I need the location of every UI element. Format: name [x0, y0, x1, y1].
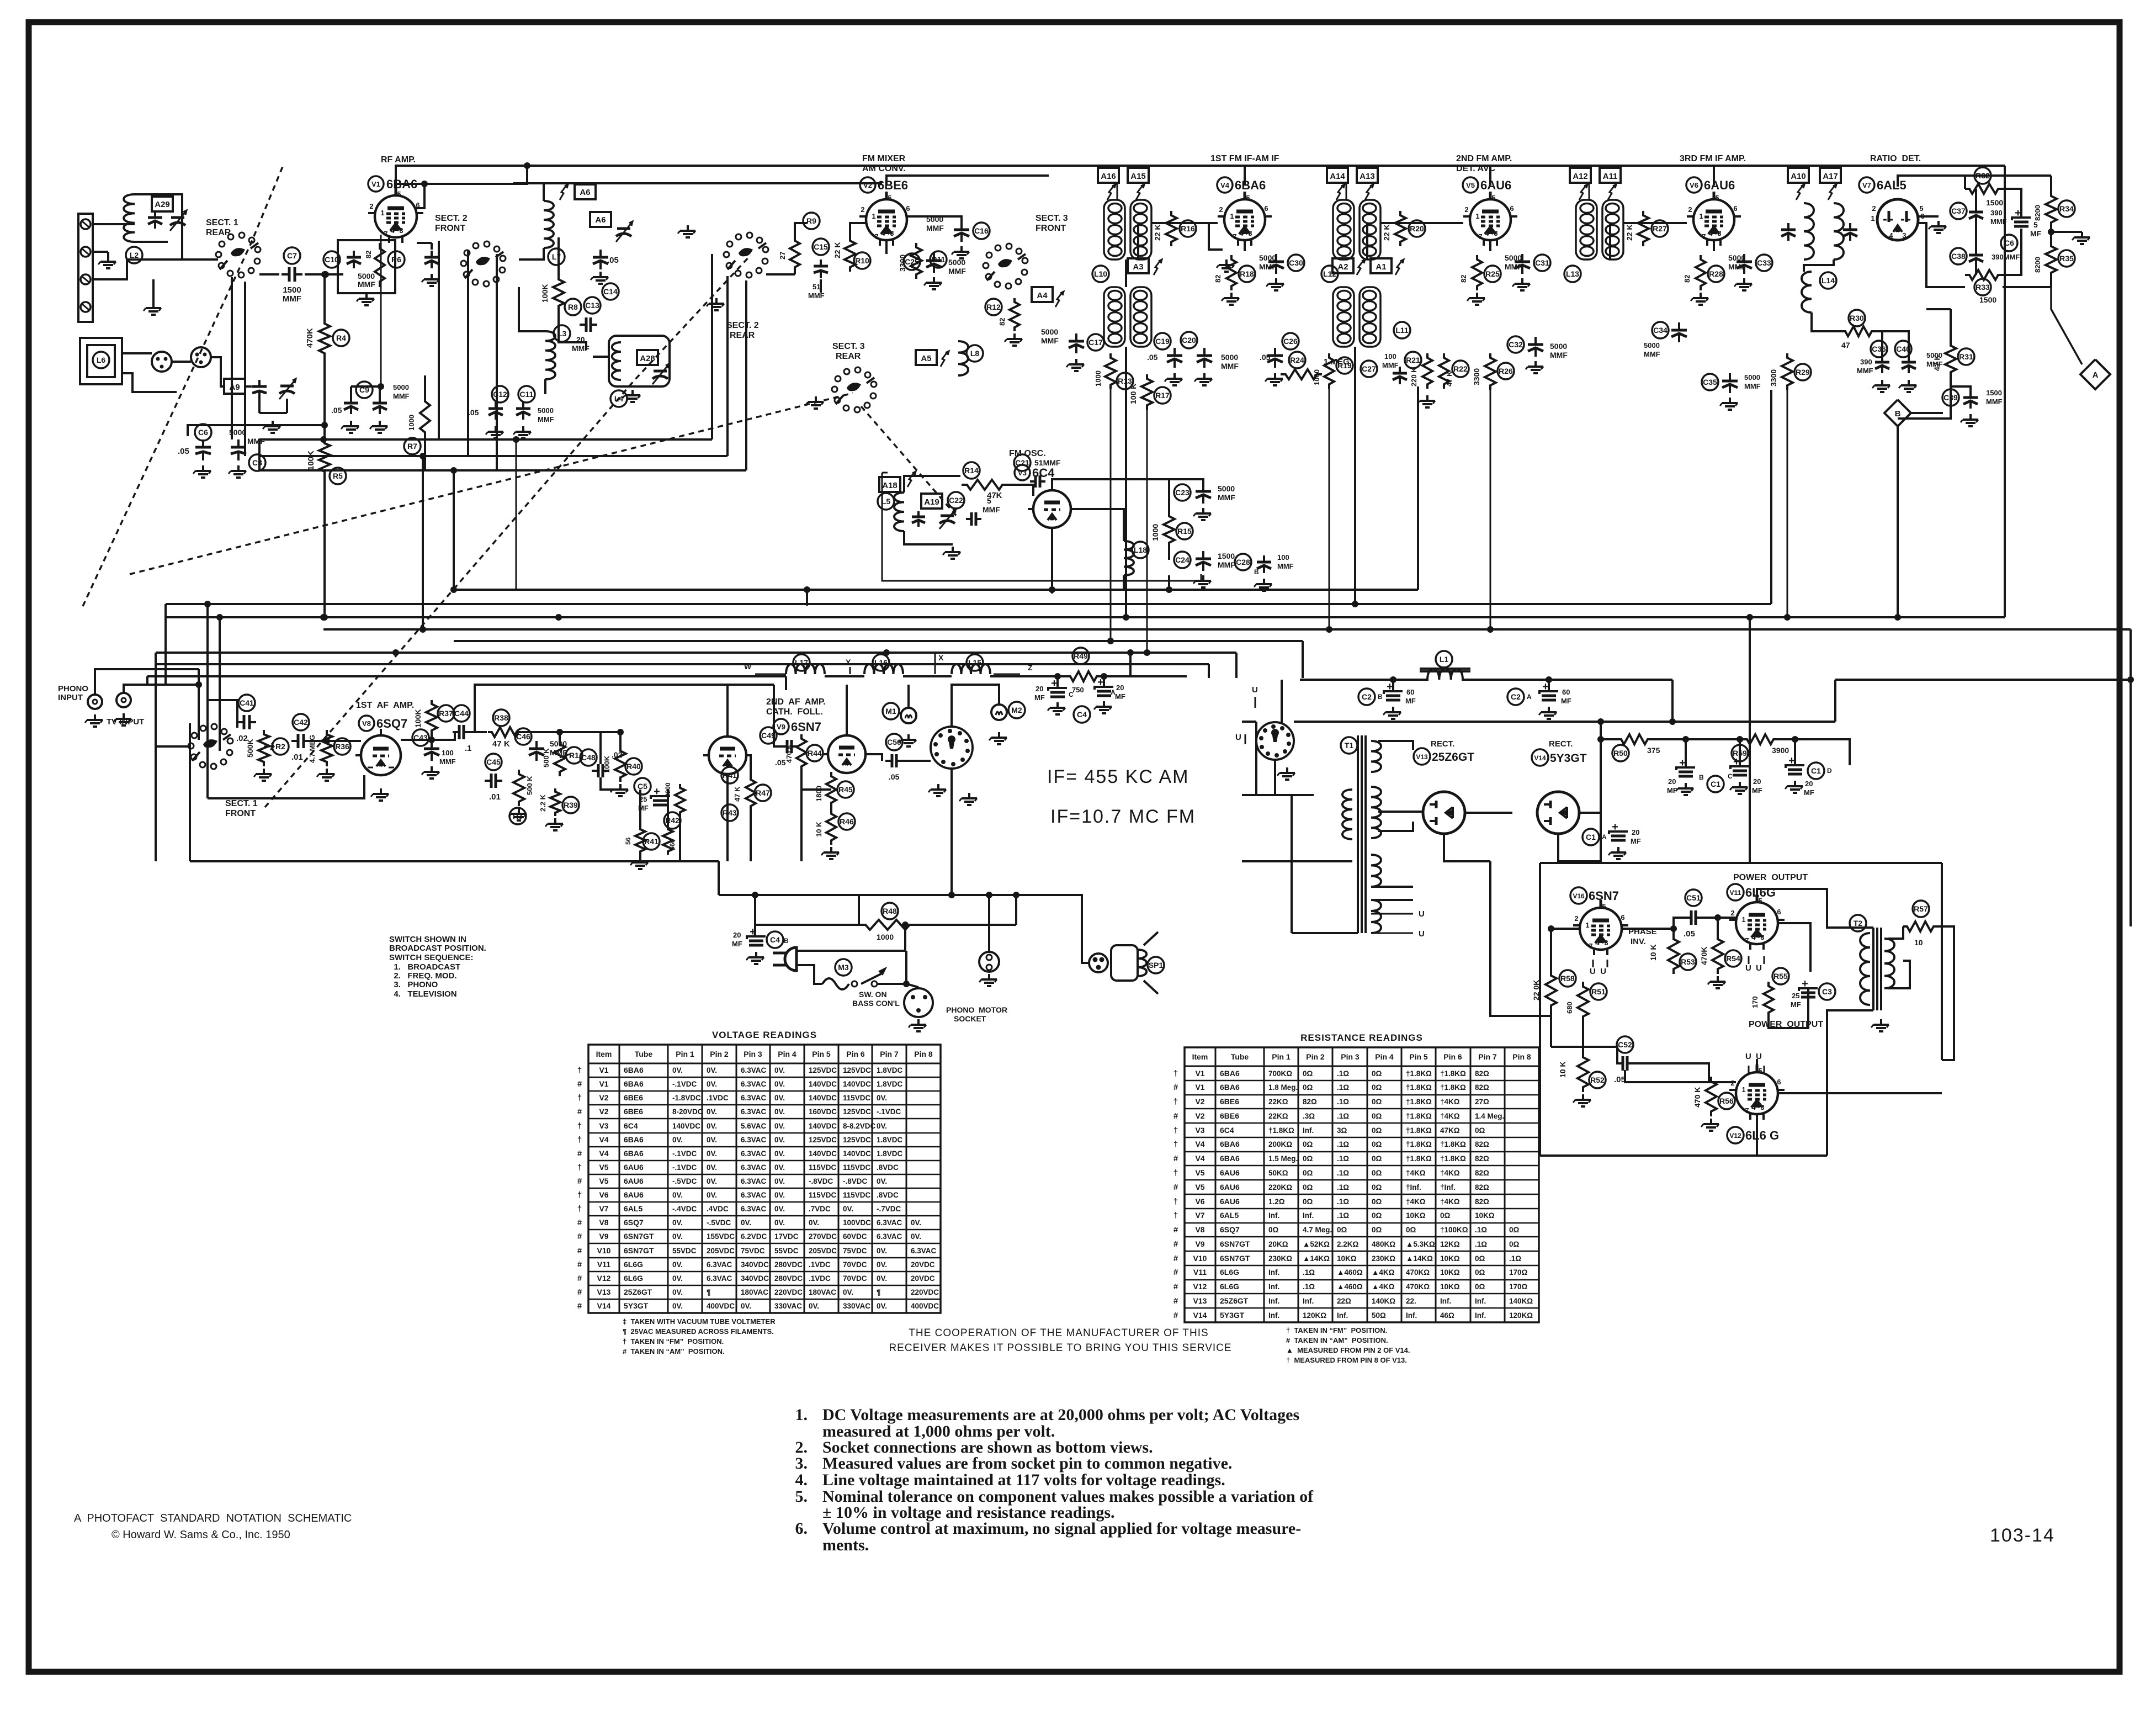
capacitor C26 .05 [1282, 333, 1299, 349]
svg-text:R53: R53 [1681, 957, 1695, 966]
svg-text:22 K: 22 K [833, 242, 842, 258]
bus left vertical drops [155, 653, 157, 746]
svg-text:10 K: 10 K [815, 822, 823, 837]
svg-text:375: 375 [1647, 746, 1660, 755]
svg-text:0Ω: 0Ω [1303, 1198, 1313, 1206]
svg-text:.05: .05 [607, 256, 619, 265]
svg-text:.05: .05 [1684, 929, 1695, 939]
svg-text:3: 3 [1494, 229, 1497, 237]
svg-text:0V.: 0V. [809, 1302, 819, 1310]
svg-text:155VDC: 155VDC [707, 1232, 735, 1241]
svg-text:22.: 22. [1406, 1297, 1416, 1305]
svg-text:V5: V5 [599, 1177, 608, 1185]
svg-text:INPUT: INPUT [58, 693, 83, 702]
svg-text:C38: C38 [1951, 252, 1966, 261]
svg-text:C23: C23 [1175, 488, 1189, 497]
svg-text:.1Ω: .1Ω [1337, 1183, 1349, 1191]
svg-text:2: 2 [369, 202, 373, 210]
svg-text:R44: R44 [808, 749, 822, 758]
svg-text:0V.: 0V. [877, 1260, 887, 1269]
capacitor C48 .02 [580, 749, 597, 766]
svg-text:▲ MEASURED FROM PIN 2 OF V14.: ▲ MEASURED FROM PIN 2 OF V14. [1286, 1346, 1410, 1354]
svg-text:B: B [1378, 693, 1383, 701]
svg-text:R28: R28 [1709, 269, 1723, 278]
svg-text:5: 5 [2033, 220, 2038, 229]
resistor R24 1 MEG [1289, 352, 1305, 368]
svg-text:20KΩ: 20KΩ [1268, 1240, 1288, 1248]
svg-text:MF: MF [1791, 1000, 1801, 1009]
svg-text:†: † [577, 1204, 582, 1214]
svg-text:RECT.: RECT. [1431, 739, 1454, 749]
svg-text:20: 20 [1805, 780, 1813, 788]
labels R41b R43 [721, 767, 738, 783]
coil label L10 [1092, 266, 1109, 282]
capacitor C13 20MMF [584, 297, 601, 314]
svg-text:125VDC: 125VDC [843, 1136, 871, 1144]
svg-text:115VDC: 115VDC [843, 1191, 871, 1199]
svg-text:Inf.: Inf. [1303, 1126, 1314, 1135]
capacitors C12 C11 [492, 386, 508, 402]
svg-text:†: † [1173, 1069, 1178, 1078]
svg-text:C: C [1728, 772, 1733, 780]
svg-text:0V.: 0V. [672, 1219, 683, 1227]
svg-text:0V.: 0V. [774, 1122, 785, 1130]
svg-text:6BA6: 6BA6 [624, 1066, 644, 1074]
svg-text:7: 7 [1702, 232, 1706, 241]
resistor R52 10K [1578, 1052, 1589, 1092]
svg-text:MMF: MMF [1382, 361, 1399, 369]
svg-text:100K: 100K [413, 709, 422, 728]
svg-text:0V.: 0V. [707, 1122, 717, 1130]
psu second rail [1294, 721, 1835, 723]
svg-text:MMF: MMF [358, 280, 375, 289]
svg-text:R51: R51 [1591, 987, 1606, 996]
power top rail [1300, 679, 1429, 681]
T1 heater taps U arrows [1371, 913, 1413, 915]
svg-text:1000: 1000 [1313, 369, 1321, 385]
svg-text:V14: V14 [597, 1301, 611, 1310]
wire C42 to V8 grid [309, 740, 361, 742]
svg-text:7: 7 [1745, 936, 1749, 945]
svg-text:5: 5 [1246, 194, 1250, 202]
svg-text:.7VDC: .7VDC [809, 1205, 831, 1213]
svg-text:A18: A18 [882, 481, 898, 490]
svg-text:0V.: 0V. [877, 1094, 887, 1102]
svg-text:82Ω: 82Ω [1475, 1083, 1489, 1092]
svg-text:C: C [1069, 691, 1074, 698]
psu wiring [1392, 679, 1394, 681]
tube designation V7 6AL5 [1859, 177, 1874, 193]
svg-text:C19: C19 [1155, 337, 1170, 346]
svg-text:B: B [784, 937, 789, 945]
svg-text:†: † [1173, 1126, 1178, 1135]
svg-text:0Ω: 0Ω [1372, 1226, 1382, 1234]
ground under volume [263, 769, 265, 774]
svg-text:C34: C34 [1653, 326, 1668, 335]
svg-text:V8: V8 [1195, 1225, 1204, 1234]
svg-text:†: † [577, 1135, 582, 1145]
tube V11 6L6G [1736, 902, 1778, 944]
svg-text:5: 5 [1491, 194, 1495, 202]
svg-text:Pin 3: Pin 3 [1341, 1052, 1360, 1061]
wire mixer grid [766, 273, 795, 276]
svg-text:Inf.: Inf. [1303, 1211, 1314, 1220]
svg-text:0V.: 0V. [774, 1191, 785, 1199]
svg-text:5.6VAC: 5.6VAC [741, 1122, 767, 1130]
svg-text:25Z6GT: 25Z6GT [1220, 1296, 1249, 1305]
svg-text:FM MIXER: FM MIXER [862, 154, 906, 163]
svg-text:8200: 8200 [2033, 257, 2042, 273]
svg-text:50Ω: 50Ω [1372, 1311, 1386, 1320]
svg-text:5: 5 [397, 190, 401, 198]
svg-text:6BA6: 6BA6 [624, 1079, 644, 1088]
resistor R8 100K [553, 275, 564, 310]
svg-text:MF: MF [1631, 837, 1641, 845]
resistor R56 470K [1706, 1077, 1717, 1116]
tube V2 6BE6 [866, 199, 907, 240]
svg-text:2: 2 [1688, 205, 1692, 214]
svg-text:7: 7 [1589, 942, 1592, 950]
svg-text:V1: V1 [599, 1079, 608, 1088]
resistor R26 3300ohm [1485, 353, 1496, 390]
svg-text:.05: .05 [889, 772, 900, 781]
svg-text:3: 3 [1604, 939, 1608, 947]
svg-text:0Ω: 0Ω [1372, 1169, 1382, 1177]
output transformer T2 [1850, 915, 1866, 931]
ground right of R34 [2081, 232, 2083, 237]
svg-text:5000: 5000 [1221, 353, 1238, 362]
ground near SECT3 REAR [815, 396, 817, 402]
svg-text:V4: V4 [1195, 1140, 1204, 1148]
switch gang dashed line 2 [265, 255, 751, 807]
svg-text:5: 5 [1758, 897, 1762, 905]
svg-text:L14: L14 [1822, 276, 1835, 285]
svg-text:R54: R54 [1726, 954, 1740, 963]
svg-text:4.: 4. [795, 1471, 808, 1489]
svg-text:INV.: INV. [1631, 937, 1646, 946]
svg-text:0V.: 0V. [843, 1288, 853, 1296]
svg-text:1.8VDC: 1.8VDC [877, 1080, 903, 1088]
svg-text:V12: V12 [1729, 1132, 1741, 1140]
svg-text:R17: R17 [1155, 391, 1170, 400]
svg-text:20: 20 [1753, 777, 1761, 786]
svg-text:V13: V13 [1416, 753, 1428, 761]
svg-text:C46: C46 [516, 732, 530, 741]
bus join vertical x1462 [806, 590, 808, 606]
wire V1 grid bias chain [323, 274, 326, 319]
svg-text:V13: V13 [597, 1288, 611, 1296]
wires IF stage [1380, 222, 1463, 224]
resistor R39 2.2K [550, 788, 560, 816]
capacitor C14 .05 [599, 250, 602, 257]
oscillator coil box L4 [609, 336, 670, 386]
svg-text:†1.8KΩ: †1.8KΩ [1406, 1154, 1432, 1163]
capacitor C8 5000MMF [249, 454, 265, 471]
svg-text:5: 5 [1919, 204, 1923, 213]
svg-text:70VDC: 70VDC [843, 1260, 867, 1269]
svg-text:R55: R55 [1773, 972, 1788, 981]
svg-text:C44: C44 [454, 709, 469, 718]
svg-text:Inf.: Inf. [1406, 1311, 1417, 1320]
resistor 4.7MEG R36 [321, 730, 332, 766]
svg-text:6.3VAC: 6.3VAC [741, 1108, 767, 1116]
svg-text:4: 4 [1485, 229, 1489, 237]
svg-text:R20: R20 [1410, 224, 1424, 233]
svg-text:R52: R52 [1590, 1076, 1605, 1084]
svg-text:0Ω: 0Ω [1372, 1069, 1382, 1078]
svg-text:L13: L13 [1566, 269, 1579, 278]
svg-text:3300: 3300 [898, 255, 907, 272]
svg-text:-.7VDC: -.7VDC [877, 1205, 901, 1213]
ground under L4 [631, 390, 634, 395]
svg-text:R22: R22 [1453, 364, 1468, 373]
svg-text:A6: A6 [580, 188, 590, 197]
svg-text:R2: R2 [275, 742, 285, 751]
svg-text:† TAKEN IN “FM” POSITION.: † TAKEN IN “FM” POSITION. [1286, 1326, 1387, 1334]
capacitor C25 [904, 253, 920, 270]
svg-text:22 K: 22 K [1625, 224, 1634, 241]
svg-text:TV INPUT: TV INPUT [107, 717, 144, 727]
svg-text:MMF: MMF [1041, 336, 1059, 345]
resistor R11 3300ohm [911, 243, 922, 279]
svg-text:▲4KΩ: ▲4KΩ [1372, 1283, 1395, 1291]
grid network C10 R6 5000MMF 82ohm [338, 240, 395, 293]
svg-text:Pin 2: Pin 2 [710, 1050, 729, 1058]
svg-text:V11: V11 [597, 1260, 610, 1269]
svg-text:#: # [1173, 1254, 1178, 1263]
svg-text:0Ω: 0Ω [1475, 1126, 1485, 1135]
svg-text:1. BROADCAST: 1. BROADCAST [389, 962, 460, 972]
resistor R40 100K [615, 746, 626, 782]
coil label L13 [1564, 266, 1581, 282]
lower transformer wires left [1125, 259, 1127, 287]
svg-text:2: 2 [1574, 914, 1578, 923]
svg-text:†1.8KΩ: †1.8KΩ [1440, 1069, 1466, 1078]
svg-text:51: 51 [813, 283, 820, 291]
svg-text:†1.8KΩ: †1.8KΩ [1440, 1154, 1466, 1163]
junction dots on bus [392, 649, 399, 656]
resistor R4 470K [319, 319, 330, 358]
trimmer boxes A16 A15 [1098, 168, 1119, 183]
svg-text:PHONO MOTOR: PHONO MOTOR [946, 1005, 1007, 1014]
svg-text:C1: C1 [1711, 780, 1720, 788]
svg-text:0V.: 0V. [707, 1191, 717, 1199]
svg-text:6SN7GT: 6SN7GT [624, 1232, 654, 1241]
svg-text:†Inf.: †Inf. [1406, 1183, 1421, 1191]
svg-text:C6: C6 [2004, 239, 2014, 247]
svg-text:L8: L8 [970, 349, 980, 358]
svg-text:6.: 6. [795, 1519, 808, 1538]
svg-text:0V.: 0V. [707, 1108, 717, 1116]
svg-text:6L6G: 6L6G [624, 1274, 643, 1283]
svg-text:0Ω: 0Ω [1372, 1112, 1382, 1120]
tube V6 6AU6 [1693, 199, 1734, 240]
svg-text:A14: A14 [1330, 172, 1345, 181]
svg-text:0V.: 0V. [774, 1136, 785, 1144]
svg-text:0V.: 0V. [741, 1219, 751, 1227]
V4 grid jog wire [1209, 223, 1223, 250]
svg-text:3900: 3900 [1772, 746, 1789, 755]
svg-text:V10: V10 [597, 1246, 611, 1255]
svg-text:0Ω: 0Ω [1372, 1126, 1382, 1135]
svg-text:L11: L11 [1395, 326, 1409, 335]
svg-text:# TAKEN IN “AM” POSITION.: # TAKEN IN “AM” POSITION. [1286, 1336, 1388, 1344]
svg-text:SECT. 3: SECT. 3 [1035, 214, 1068, 223]
svg-text:Pin 4: Pin 4 [778, 1050, 796, 1058]
svg-text:60: 60 [1406, 688, 1414, 696]
svg-text:0V.: 0V. [672, 1191, 683, 1199]
svg-text:47 K: 47 K [1932, 354, 1941, 371]
tube designation V4 6BA6 [1217, 177, 1233, 193]
svg-text:330VAC: 330VAC [774, 1302, 802, 1310]
svg-text:C4: C4 [770, 935, 780, 944]
svg-text:0V.: 0V. [911, 1232, 921, 1241]
svg-text:R18: R18 [1240, 269, 1254, 278]
svg-text:MF: MF [1561, 697, 1571, 705]
tube designation V9 6SN7 [773, 719, 789, 734]
svg-text:6SQ7: 6SQ7 [376, 717, 407, 730]
svg-text:R47: R47 [756, 788, 770, 797]
svg-text:6AL5: 6AL5 [1877, 178, 1907, 192]
svg-text:#: # [1173, 1268, 1178, 1277]
svg-text:V16: V16 [1573, 892, 1585, 900]
resistor R58 220K [1546, 971, 1557, 1010]
svg-text:82Ω: 82Ω [1475, 1140, 1489, 1148]
svg-text:.1Ω: .1Ω [1337, 1112, 1349, 1120]
svg-text:60: 60 [1562, 688, 1570, 696]
svg-text:MMF: MMF [1744, 382, 1761, 390]
svg-text:L15: L15 [968, 658, 981, 667]
svg-text:R12: R12 [986, 303, 1001, 311]
phono plug sockets [152, 352, 172, 372]
svg-text:MMF: MMF [393, 392, 410, 400]
svg-text:V9: V9 [777, 723, 785, 731]
svg-text:47 K: 47 K [492, 739, 510, 749]
svg-text:5Y3GT: 5Y3GT [1220, 1311, 1245, 1320]
svg-text:82Ω: 82Ω [1475, 1069, 1489, 1078]
svg-text:2ND FM AMP.: 2ND FM AMP. [1456, 154, 1512, 163]
svg-text:V7: V7 [1195, 1211, 1204, 1220]
svg-text:R8: R8 [568, 303, 578, 311]
svg-text:IF= 455 KC AM: IF= 455 KC AM [1047, 766, 1189, 787]
svg-text:8-8.2VDC: 8-8.2VDC [843, 1122, 876, 1130]
svg-text:C14: C14 [603, 287, 618, 296]
switch SECT.1 FRONT [227, 750, 232, 755]
svg-text:V5: V5 [1466, 181, 1475, 189]
svg-text:0Ω: 0Ω [1303, 1169, 1313, 1177]
osc grid wires [904, 476, 960, 492]
svg-text:22 0K: 22 0K [1532, 980, 1541, 1000]
T1 primary winding [1342, 790, 1352, 839]
svg-text:220 K: 220 K [1410, 367, 1418, 386]
svg-text:C5: C5 [638, 782, 647, 791]
svg-text:220VDC: 220VDC [774, 1288, 803, 1296]
svg-text:6BA6: 6BA6 [1220, 1154, 1240, 1163]
svg-text:U: U [1419, 909, 1425, 919]
svg-text:FRONT: FRONT [435, 224, 465, 233]
loop antenna coil L2 [124, 194, 135, 242]
svg-text:-.1VDC: -.1VDC [877, 1108, 901, 1116]
svg-text:125VDC: 125VDC [843, 1066, 871, 1074]
svg-text:SW. ON: SW. ON [859, 990, 887, 999]
electrolytic C2A 60MF [1507, 688, 1524, 705]
grid resistor 22K R16 [1166, 211, 1177, 246]
svg-text:B: B [1895, 409, 1901, 419]
svg-text:6.3VAC: 6.3VAC [741, 1205, 767, 1213]
svg-text:C2: C2 [1362, 692, 1372, 701]
coil L8 [958, 341, 968, 375]
svg-text:#: # [1173, 1282, 1178, 1291]
svg-text:A: A [1527, 693, 1532, 701]
wire antenna to switch [93, 223, 135, 225]
svg-text:4: 4 [881, 229, 885, 237]
svg-text:6SN7GT: 6SN7GT [1220, 1240, 1250, 1248]
svg-text:55VDC: 55VDC [672, 1247, 697, 1255]
svg-text:Inf.: Inf. [1268, 1297, 1279, 1305]
coil L3 [545, 331, 555, 379]
cathode resistor 82ohm R28 [1696, 255, 1706, 290]
svg-text:R50: R50 [1613, 749, 1628, 758]
resistor R1 500K [554, 740, 565, 776]
tube V4 6BA6 [1224, 199, 1265, 240]
svg-text:R43: R43 [723, 808, 737, 817]
svg-text:† MEASURED FROM PIN 8 OF V13.: † MEASURED FROM PIN 8 OF V13. [1286, 1356, 1407, 1364]
resistor R37 100K [426, 700, 437, 734]
svg-text:0V.: 0V. [672, 1136, 683, 1144]
svg-text:480KΩ: 480KΩ [1372, 1240, 1395, 1248]
right B+ drop to output stage [2130, 629, 2132, 926]
svg-text:#: # [1173, 1154, 1178, 1163]
capacitor across loop [154, 211, 156, 218]
svg-text:6.3VAC: 6.3VAC [741, 1136, 767, 1144]
svg-text:6L6 G: 6L6 G [1745, 1129, 1779, 1142]
svg-text:140VDC: 140VDC [672, 1122, 700, 1130]
svg-text:22Ω: 22Ω [1337, 1297, 1351, 1305]
svg-text:140VDC: 140VDC [843, 1080, 871, 1088]
svg-text:6.3VAC: 6.3VAC [741, 1150, 767, 1158]
svg-text:0Ω: 0Ω [1303, 1083, 1313, 1092]
svg-text:C12: C12 [493, 390, 507, 399]
svg-text:340VDC: 340VDC [741, 1260, 769, 1269]
svg-text:20: 20 [1035, 685, 1043, 693]
resistor R33 1500ohm [1974, 279, 1991, 295]
capacitor C15 51MMF [813, 239, 829, 255]
wires IF stage [1151, 222, 1218, 224]
svg-text:Pin 6: Pin 6 [846, 1050, 865, 1058]
svg-text:2.2 K: 2.2 K [539, 794, 547, 812]
svg-text:MMF: MMF [1221, 362, 1239, 370]
resistor R59 3900ohm [1743, 734, 1777, 744]
svg-text:140VDC: 140VDC [843, 1150, 871, 1158]
svg-text:1000: 1000 [877, 933, 894, 941]
svg-text:#: # [1173, 1083, 1178, 1092]
svg-text:0Ω: 0Ω [1372, 1154, 1382, 1163]
svg-text:POWER OUTPUT: POWER OUTPUT [1733, 873, 1808, 882]
svg-text:0V.: 0V. [774, 1205, 785, 1213]
svg-text:6.3VAC: 6.3VAC [741, 1080, 767, 1088]
svg-text:MMF: MMF [1218, 560, 1235, 569]
capacitor C52 .05 [1617, 1036, 1633, 1053]
svg-text:© Howard W. Sams & Co., Inc. 1: © Howard W. Sams & Co., Inc. 1950 [111, 1529, 290, 1541]
svg-text:0V.: 0V. [672, 1232, 683, 1241]
svg-text:1ST FM IF-AM IF: 1ST FM IF-AM IF [1210, 154, 1279, 163]
svg-text:6AU6: 6AU6 [624, 1163, 644, 1172]
svg-text:V3: V3 [599, 1121, 608, 1130]
resistor R30 47ohm [1849, 310, 1865, 326]
ground under SECT2 REAR [715, 298, 718, 304]
capacitor C42 .01 [293, 714, 309, 730]
svg-text:Inf.: Inf. [1475, 1311, 1486, 1320]
